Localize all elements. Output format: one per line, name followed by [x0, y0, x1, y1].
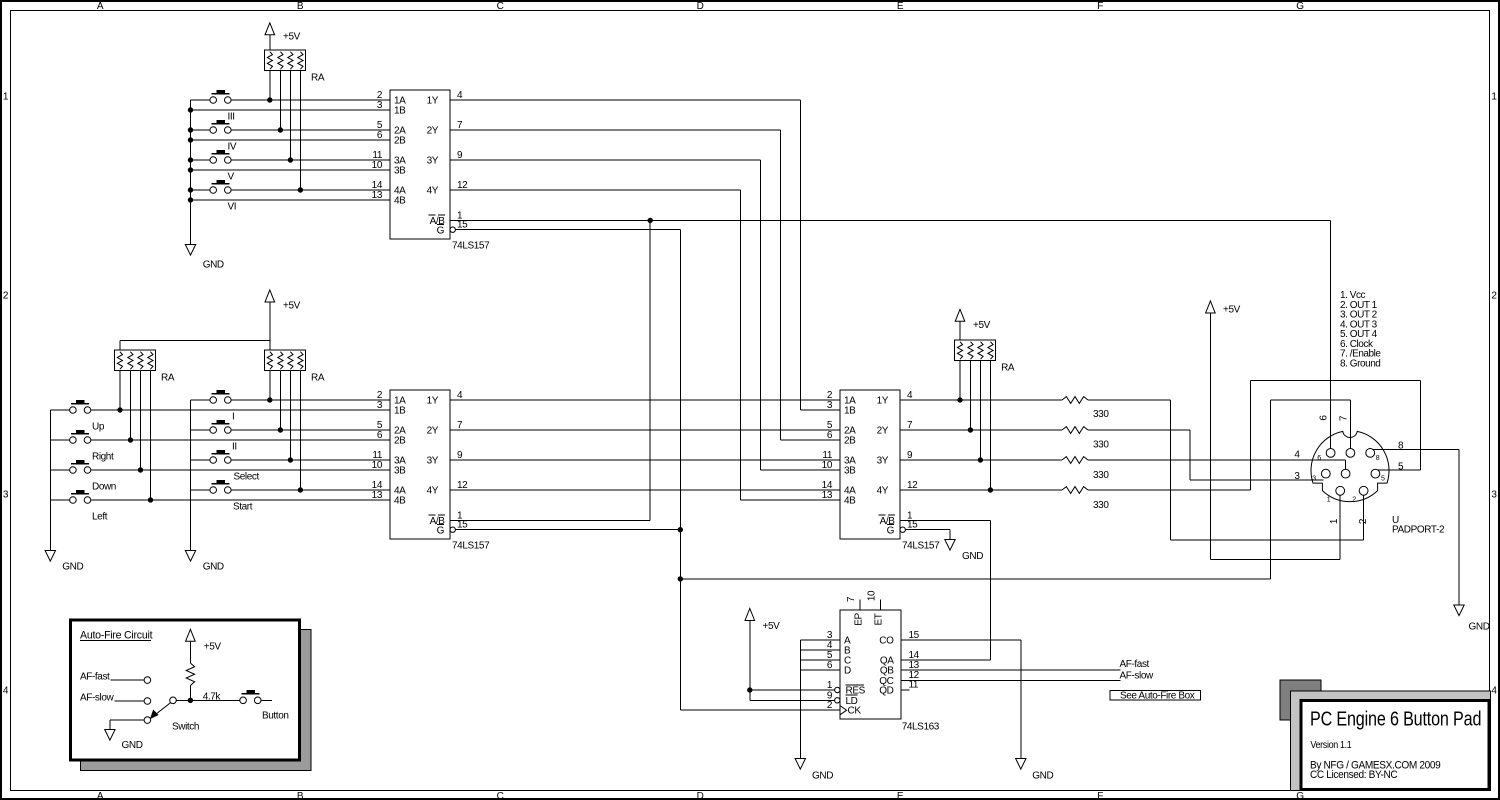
svg-text:4: 4: [1294, 450, 1300, 461]
svg-text:3: 3: [377, 100, 383, 111]
svg-text:4B: 4B: [394, 196, 406, 207]
ground direction buttons: [45, 551, 83, 573]
svg-text:330: 330: [1093, 470, 1109, 481]
svg-text:D: D: [844, 666, 851, 677]
svg-text:12: 12: [457, 180, 468, 191]
svg-text:AF-slow: AF-slow: [1120, 670, 1154, 681]
svg-text:6: 6: [377, 430, 383, 441]
svg-text:6: 6: [1319, 415, 1330, 421]
svg-text:G: G: [1296, 791, 1304, 800]
wire U3 A/B select from U4 QA: [900, 520, 991, 660]
svg-text:Up: Up: [92, 422, 105, 433]
auto-fire box: [71, 620, 300, 760]
svg-text:III: III: [228, 112, 235, 123]
svg-text:EP: EP: [854, 613, 865, 626]
wire enable net G: [456, 230, 1351, 711]
svg-text:5: 5: [1398, 462, 1404, 473]
pushbutton Select: [210, 450, 260, 482]
pushbutton Up: [70, 400, 105, 432]
svg-text:2: 2: [1352, 496, 1356, 503]
svg-text:10: 10: [867, 590, 878, 601]
svg-text:+5V: +5V: [283, 32, 301, 43]
svg-text:G: G: [437, 226, 445, 237]
wire CK from enable net: [680, 709, 840, 711]
wire U3 3Y / OUT3 to DIN pin4: [900, 458, 1346, 469]
svg-text:RA: RA: [161, 373, 175, 384]
svg-text:GND: GND: [203, 260, 224, 271]
svg-text:+5V: +5V: [973, 320, 991, 331]
svg-text:GND: GND: [1032, 771, 1053, 782]
svg-text:1Y: 1Y: [427, 396, 439, 407]
svg-text:3B: 3B: [394, 166, 406, 177]
svg-text:1B: 1B: [844, 406, 856, 417]
svg-text:E: E: [897, 791, 904, 800]
title block panel: [1301, 701, 1489, 790]
wire ground bus top circuit: [190, 100, 192, 245]
svg-text:9: 9: [457, 450, 463, 461]
svg-text:3Y: 3Y: [427, 456, 439, 467]
svg-text:10: 10: [372, 460, 383, 471]
wire ground bus I/II/Select/Start: [190, 400, 192, 551]
ground DIN pin8: [1454, 605, 1490, 633]
svg-text:9: 9: [457, 150, 463, 161]
svg-text:8: 8: [1398, 441, 1404, 452]
resistor 330 row2: [1062, 427, 1109, 451]
wire RA2 leads: [120, 370, 151, 500]
svg-text:AF-slow: AF-slow: [80, 693, 114, 704]
svg-text:Auto-Fire Circuit: Auto-Fire Circuit: [80, 630, 153, 642]
svg-text:F: F: [1097, 1, 1103, 12]
svg-text:Select: Select: [234, 472, 260, 483]
svg-text:CO: CO: [879, 636, 894, 647]
svg-text:E: E: [897, 1, 904, 12]
svg-text:B: B: [297, 1, 304, 12]
svg-text:Switch: Switch: [172, 722, 199, 733]
frame grid numbers right: [1491, 92, 1497, 697]
svg-text:A: A: [97, 791, 104, 800]
svg-text:74LS157: 74LS157: [452, 241, 490, 252]
svg-text:RA: RA: [311, 73, 325, 84]
svg-text:3: 3: [1491, 490, 1497, 501]
pushbutton Right: [70, 430, 114, 462]
wire U3 1Y / OUT1 to DIN pin2: [900, 398, 1364, 540]
note See Auto-Fire Box: [1110, 690, 1200, 701]
svg-text:AF-fast: AF-fast: [1120, 659, 1150, 670]
wire DIN pin8 to ground: [1373, 450, 1459, 605]
ground U4 CO: [1016, 759, 1054, 782]
wire switch to ground: [110, 720, 144, 729]
svg-text:8: 8: [1376, 455, 1380, 462]
svg-text:Down: Down: [92, 482, 116, 493]
svg-text:GND: GND: [962, 551, 983, 562]
svg-text:3: 3: [377, 400, 383, 411]
wire U3 4Y / OUT4 to DIN pin5: [900, 381, 1420, 493]
svg-text:7: 7: [1338, 415, 1349, 421]
svg-text:1B: 1B: [394, 106, 406, 117]
svg-text:6: 6: [827, 660, 833, 671]
svg-text:8. Ground: 8. Ground: [1340, 358, 1380, 369]
svg-text:+5V: +5V: [1223, 305, 1241, 316]
svg-text:74LS163: 74LS163: [902, 722, 940, 733]
svg-text:+5V: +5V: [283, 301, 301, 312]
svg-text:2: 2: [3, 291, 9, 302]
svg-text:V: V: [228, 172, 235, 183]
junction dots RA1 leads: [268, 98, 303, 192]
svg-text:5: 5: [1381, 476, 1385, 483]
resistor 330 row3: [1062, 457, 1109, 481]
svg-text:10: 10: [372, 160, 383, 171]
resistor 330 row4: [1062, 487, 1109, 511]
svg-text:13: 13: [822, 490, 833, 501]
svg-text:+5V: +5V: [763, 621, 781, 632]
RA2 resistor array RA: [115, 350, 175, 384]
+5V supply top: [265, 23, 301, 43]
svg-text:15: 15: [457, 220, 468, 231]
svg-text:3B: 3B: [844, 466, 856, 477]
svg-text:A: A: [97, 1, 104, 12]
svg-text:PADPORT-2: PADPORT-2: [1392, 525, 1445, 536]
svg-text:I: I: [232, 412, 234, 423]
svg-text:1Y: 1Y: [427, 96, 439, 107]
ground U3 enable: [945, 540, 983, 563]
svg-text:2Y: 2Y: [427, 426, 439, 437]
svg-text:3B: 3B: [394, 466, 406, 477]
wire U2 G enable: [456, 529, 681, 531]
frame grid numbers left: [3, 92, 9, 697]
svg-text:VI: VI: [228, 202, 237, 213]
svg-text:4Y: 4Y: [427, 486, 439, 497]
svg-text:13: 13: [372, 190, 383, 201]
svg-text:4: 4: [457, 390, 463, 401]
junction dots RA3 leads: [268, 398, 303, 492]
wire U1 3Y to U3 3B: [450, 160, 840, 470]
svg-text:F: F: [1097, 791, 1103, 800]
multiplexer U1 74LS157: [372, 90, 490, 252]
multiplexer U2 74LS157: [372, 390, 490, 552]
ground top circuit: [185, 245, 224, 271]
svg-text:11: 11: [909, 680, 919, 691]
svg-text:330: 330: [1093, 409, 1109, 420]
svg-text:+5V: +5V: [204, 641, 222, 652]
svg-text:C: C: [497, 791, 504, 800]
svg-text:3Y: 3Y: [427, 156, 439, 167]
wire U3 G to ground: [906, 530, 951, 540]
svg-text:1: 1: [1329, 518, 1340, 524]
junction dots RA2 leads: [118, 408, 153, 502]
svg-text:3: 3: [1294, 471, 1300, 482]
svg-text:GND: GND: [203, 562, 224, 573]
svg-text:4: 4: [907, 390, 913, 401]
svg-text:G: G: [437, 526, 445, 537]
svg-text:GND: GND: [62, 562, 83, 573]
title block dark shadow: [1280, 680, 1321, 720]
svg-text:Start: Start: [233, 502, 253, 513]
wire ground bus direction buttons: [49, 410, 51, 551]
svg-text:3: 3: [1312, 476, 1316, 483]
label Auto-Fire Circuit: [80, 630, 153, 642]
svg-text:2: 2: [1491, 291, 1497, 302]
resistor 4.7k: [186, 641, 194, 700]
svg-text:15: 15: [907, 520, 918, 531]
svg-text:Version 1.1: Version 1.1: [1310, 740, 1351, 752]
wire U3 2Y / OUT2 to DIN pin3: [900, 428, 1324, 480]
node AF-fast contact: [80, 671, 151, 683]
svg-text:1: 1: [3, 92, 9, 103]
pushbutton Start: [210, 480, 253, 512]
DIN pinout legend: [1340, 290, 1381, 369]
svg-text:D: D: [697, 791, 704, 800]
svg-text:4Y: 4Y: [877, 486, 889, 497]
svg-text:1: 1: [1327, 496, 1331, 503]
svg-text:B: B: [297, 791, 304, 800]
svg-text:15: 15: [457, 520, 468, 531]
multiplexer U3 74LS157: [822, 390, 940, 552]
svg-text:2: 2: [827, 700, 833, 711]
junction dots top bus: [188, 108, 192, 202]
svg-text:4B: 4B: [844, 496, 856, 507]
wire U4 input bus A B C D to ground: [800, 640, 840, 759]
svg-text:6: 6: [827, 430, 833, 441]
RA3 resistor array RA: [265, 350, 325, 384]
+5V supply auto-fire: [186, 629, 222, 652]
svg-text:4: 4: [457, 90, 463, 101]
wires button rows Up/Right/Down/Left to U2 B inputs: [50, 410, 390, 500]
wire U1 4Y to U3 4B: [450, 190, 840, 500]
svg-text:4.7k: 4.7k: [203, 691, 222, 702]
svg-text:Left: Left: [92, 512, 108, 523]
svg-text:GND: GND: [122, 740, 143, 751]
pushbutton III: [210, 90, 235, 122]
wire U2 A/B select: [450, 220, 650, 520]
wire U4 QD stub: [901, 689, 910, 691]
svg-text:3: 3: [827, 400, 833, 411]
svg-text:QD: QD: [879, 685, 893, 696]
wire +5V to DIN pin1 Vcc: [1210, 313, 1340, 560]
svg-text:10: 10: [822, 460, 833, 471]
counter U4 74LS163: [827, 590, 940, 732]
wire select net A/B to DIN pin6: [450, 218, 1331, 448]
svg-text:74LS157: 74LS157: [452, 541, 490, 552]
svg-text:2B: 2B: [394, 436, 406, 447]
svg-text:1: 1: [1491, 92, 1497, 103]
RA4 resistor array RA: [955, 340, 1015, 374]
svg-text:9: 9: [907, 450, 913, 461]
wire U4 CO to ground: [901, 640, 1021, 759]
wires button rows III-VI to U1 inputs: [191, 100, 391, 200]
svg-text:1Y: 1Y: [877, 396, 889, 407]
svg-text:13: 13: [372, 490, 383, 501]
ground auto-fire: [105, 730, 143, 752]
pushbutton auto-fire button: [240, 691, 289, 722]
svg-text:Right: Right: [92, 452, 114, 463]
svg-text:ET: ET: [874, 613, 885, 625]
svg-text:7: 7: [907, 420, 913, 431]
svg-text:3: 3: [3, 490, 9, 501]
wire +5V stem middle: [120, 302, 270, 351]
wire U1 2Y to U3 2B: [450, 130, 840, 440]
svg-text:330: 330: [1093, 440, 1109, 451]
svg-text:3Y: 3Y: [877, 456, 889, 467]
title block light shadow: [1290, 691, 1490, 791]
ground U4 inputs: [795, 759, 833, 782]
wire switch common to button: [176, 698, 271, 702]
+5V supply middle: [265, 290, 301, 312]
svg-text:IV: IV: [228, 142, 237, 153]
svg-text:RA: RA: [1001, 363, 1015, 374]
svg-text:12: 12: [457, 480, 468, 491]
svg-text:6: 6: [377, 130, 383, 141]
wire U4 QC AF-slow: [901, 679, 1120, 681]
+5V supply RA4: [955, 309, 990, 331]
+5V supply U4: [745, 609, 780, 633]
svg-text:G: G: [1296, 1, 1304, 12]
wire U1 1Y to U3 1B: [450, 100, 840, 410]
connector U5 PADPORT-2 mini-DIN8: [1294, 415, 1445, 536]
wire U4 QB AF-fast: [901, 669, 1120, 671]
svg-text:12: 12: [907, 480, 918, 491]
pushbutton VI: [210, 180, 236, 212]
svg-text:G: G: [887, 526, 895, 537]
svg-text:7: 7: [457, 120, 463, 131]
svg-text:4Y: 4Y: [427, 186, 439, 197]
svg-text:2Y: 2Y: [427, 126, 439, 137]
pushbutton Left: [70, 490, 108, 522]
frame grid letters bottom: [97, 791, 1304, 800]
+5V supply DIN: [1206, 301, 1241, 316]
wire +5V stem to RA1: [269, 34, 271, 51]
svg-text:330: 330: [1093, 500, 1109, 511]
svg-text:4: 4: [1491, 686, 1497, 697]
svg-text:CC Licensed: BY-NC: CC Licensed: BY-NC: [1310, 769, 1398, 781]
svg-text:1B: 1B: [394, 406, 406, 417]
svg-text:II: II: [232, 442, 237, 453]
svg-text:C: C: [497, 1, 504, 12]
svg-text:2B: 2B: [844, 436, 856, 447]
svg-text:GND: GND: [1469, 622, 1490, 633]
svg-text:See Auto-Fire Box: See Auto-Fire Box: [1120, 691, 1195, 702]
wires U2 outputs to U3 A inputs: [450, 400, 840, 490]
wire RA3 leads: [270, 370, 301, 490]
svg-text:2: 2: [1358, 518, 1369, 524]
node AF-slow contact: [80, 693, 151, 705]
resistor 330 row1: [1062, 397, 1109, 420]
svg-text:D: D: [697, 1, 704, 12]
svg-text:RA: RA: [311, 373, 325, 384]
svg-text:2Y: 2Y: [877, 426, 889, 437]
svg-text:74LS157: 74LS157: [902, 541, 940, 552]
svg-text:6: 6: [1317, 455, 1321, 462]
svg-text:Button: Button: [262, 711, 289, 722]
wire RA4 leads: [960, 321, 990, 490]
switch SW1: [144, 697, 199, 733]
auto-fire box shadow: [81, 630, 312, 771]
pushbutton IV: [210, 120, 237, 152]
wire RA1 leads to button rows: [270, 70, 301, 190]
svg-text:7: 7: [457, 420, 463, 431]
pushbutton V: [210, 150, 235, 182]
wire +5V to RES and LD: [748, 618, 835, 700]
svg-text:4B: 4B: [394, 496, 406, 507]
svg-text:CK: CK: [848, 706, 862, 717]
svg-text:PC Engine 6 Button Pad: PC Engine 6 Button Pad: [1310, 708, 1481, 730]
svg-text:AF-fast: AF-fast: [80, 671, 110, 682]
svg-text:7: 7: [846, 596, 857, 602]
RA1 resistor array RA: [265, 50, 325, 83]
wire U4 QA to U3 A/B: [901, 659, 991, 661]
svg-text:GND: GND: [812, 771, 833, 782]
pushbutton I: [210, 390, 234, 422]
pushbutton Down: [70, 460, 116, 492]
svg-text:2B: 2B: [394, 136, 406, 147]
wires button rows I/II/Select/Start to U2 A inputs: [191, 400, 391, 490]
svg-text:4: 4: [3, 686, 9, 697]
pushbutton II: [210, 420, 237, 452]
ground I/II/Select/Start: [185, 551, 224, 573]
svg-text:15: 15: [909, 630, 920, 641]
frame grid letters top: [97, 1, 1304, 12]
